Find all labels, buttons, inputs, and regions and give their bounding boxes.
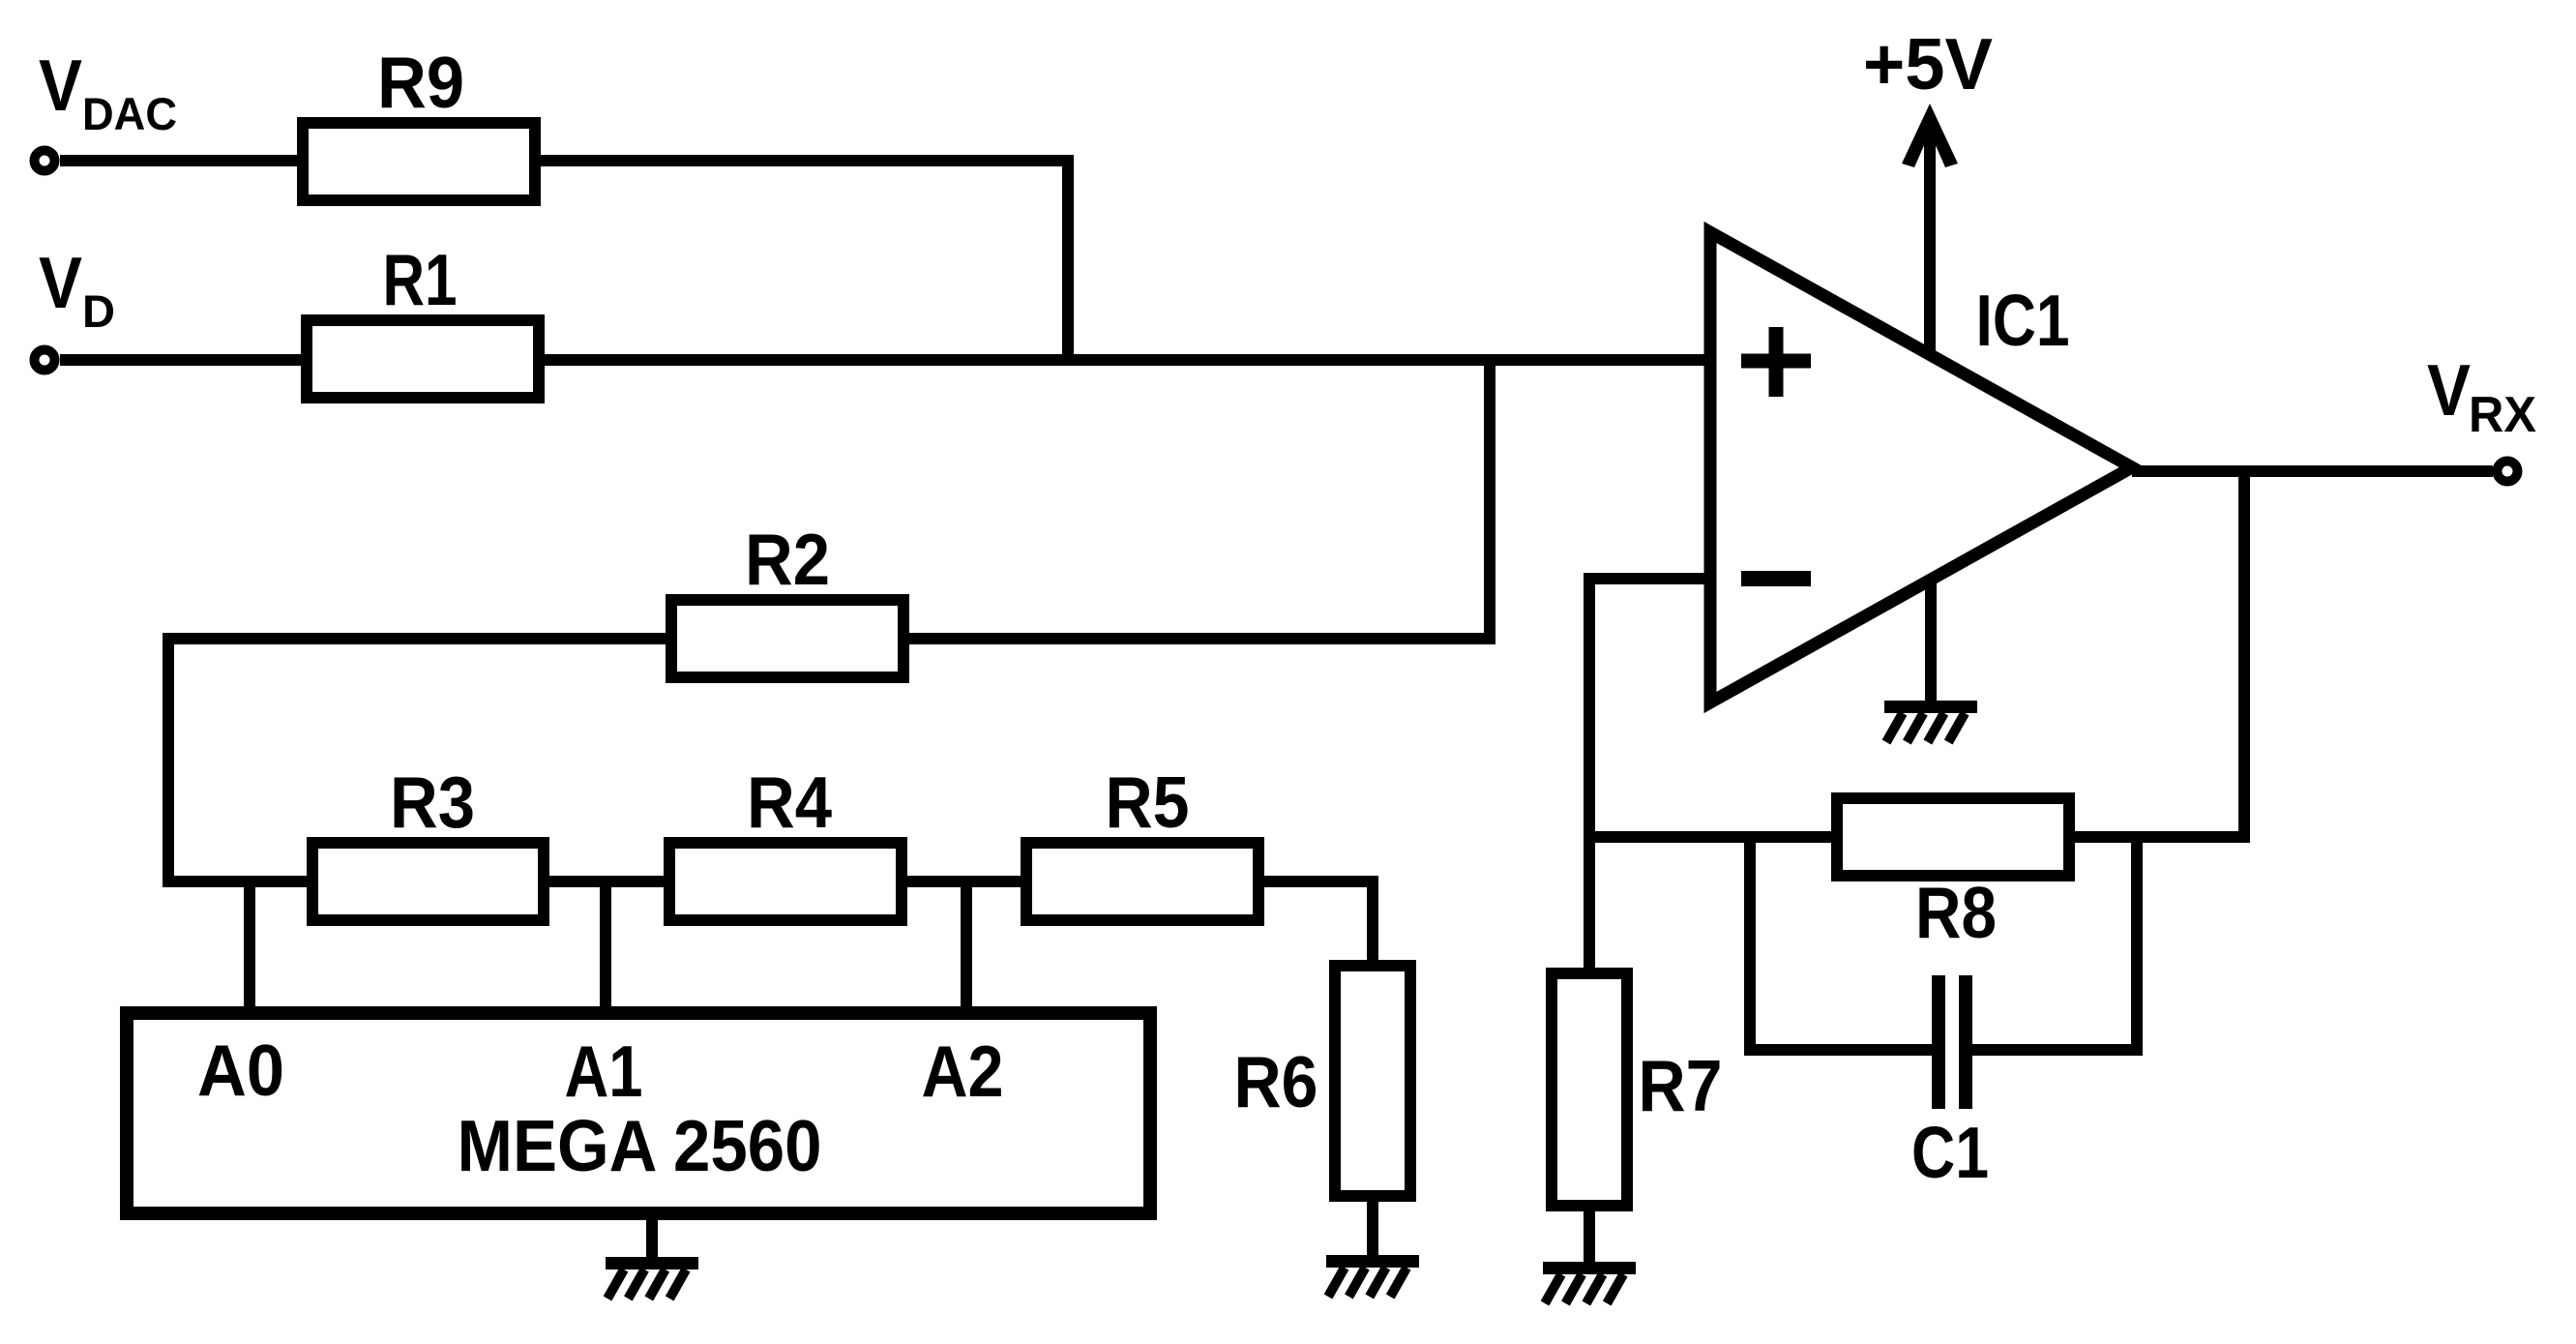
svg-text:R5: R5 [1106,762,1190,843]
svg-text:V: V [39,242,82,323]
svg-text:R8: R8 [1915,872,1997,953]
svg-text:R1: R1 [383,239,458,320]
svg-text:A0: A0 [197,1030,284,1111]
svg-text:R7: R7 [1639,1045,1723,1126]
svg-text:IC1: IC1 [1976,280,2070,361]
svg-text:R9: R9 [377,42,464,123]
svg-text:V: V [39,45,82,126]
svg-text:R4: R4 [747,762,832,843]
svg-text:A1: A1 [565,1030,643,1112]
svg-text:C1: C1 [1911,1112,1989,1193]
svg-text:D: D [82,285,115,337]
svg-text:R3: R3 [390,762,475,843]
svg-text:MEGA 2560: MEGA 2560 [458,1105,822,1186]
svg-text:V: V [2427,349,2471,431]
svg-text:RX: RX [2469,387,2536,443]
svg-text:R6: R6 [1234,1041,1318,1122]
svg-text:A2: A2 [922,1030,1004,1112]
svg-text:DAC: DAC [82,88,177,139]
svg-text:R2: R2 [745,519,830,600]
svg-text:+5V: +5V [1863,23,1993,105]
